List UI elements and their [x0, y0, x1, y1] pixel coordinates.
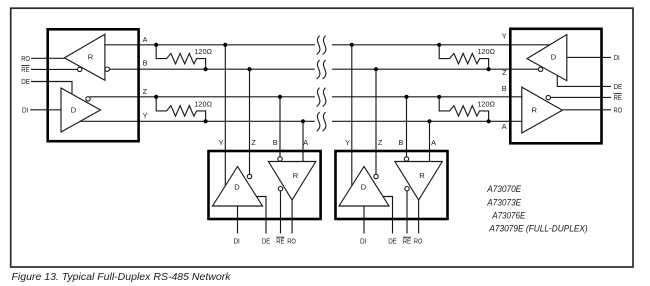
wire bus line A (left) / Y (right), left segment — [105, 44, 314, 46]
wire U1 DI — [30, 109, 61, 111]
svg-text:Z: Z — [378, 138, 383, 147]
transceiver U2 box (middle left) — [209, 151, 321, 219]
svg-text:B: B — [502, 84, 507, 93]
inversion bubble on U3 receiver enable RE — [405, 187, 409, 191]
wire U2 DE — [257, 197, 267, 234]
svg-text:D: D — [71, 106, 77, 115]
wire U1 RE — [31, 68, 77, 70]
receiver triangle R of U1 — [64, 34, 105, 80]
svg-text:R: R — [532, 106, 538, 115]
inversion bubble on U4 driver output Z — [538, 67, 542, 71]
wire drop from line B to U2 pin Z — [249, 69, 251, 174]
svg-text:DI: DI — [360, 237, 366, 246]
junction node dots on line B — [204, 67, 491, 71]
svg-text:RE: RE — [276, 237, 284, 246]
driver triangle D of U1 — [61, 88, 101, 132]
svg-text:RO: RO — [614, 106, 623, 115]
inversion bubble on U2 receiver enable RE — [278, 187, 282, 191]
transceiver U4 box (right) — [510, 29, 601, 144]
svg-text:D: D — [551, 53, 557, 62]
wire U1 RO — [31, 57, 64, 59]
svg-text:DE: DE — [262, 237, 271, 246]
driver triangle D of U3 — [339, 167, 389, 207]
wire U2 RO — [291, 200, 293, 234]
inversion bubble on U3 receiver input B — [404, 157, 408, 161]
inversion bubble on U2 driver output Z — [247, 174, 251, 178]
wire drop from line Z to U3 pin B — [406, 97, 408, 157]
wire U4 RE — [551, 96, 612, 98]
wire U2 RE — [280, 191, 282, 234]
svg-text:RE: RE — [403, 237, 411, 246]
svg-text:Y: Y — [143, 111, 148, 120]
wire bus line A/Y right segment — [333, 44, 550, 46]
wire U3 DI — [363, 206, 365, 234]
svg-text:DE: DE — [388, 237, 397, 246]
wire U3 RO — [418, 200, 420, 234]
receiver triangle R of U3 — [395, 162, 442, 201]
cable break marks on line Y/A — [317, 112, 326, 131]
svg-text:Y: Y — [502, 32, 507, 41]
svg-text:RO: RO — [414, 237, 423, 246]
wire bus line B/Z right segment — [333, 68, 539, 70]
svg-text:A: A — [502, 122, 507, 131]
svg-text:DE: DE — [614, 82, 623, 91]
svg-text:D: D — [361, 182, 367, 191]
svg-text:Z: Z — [502, 68, 507, 77]
svg-text:A73076E: A73076E — [491, 211, 526, 222]
junction node dots on line Z — [154, 95, 441, 99]
svg-text:120Ω: 120Ω — [477, 99, 495, 108]
svg-text:A: A — [431, 138, 436, 147]
junction node dots on line Y — [204, 119, 491, 123]
wire drop from line Y to U2 pin A — [302, 121, 304, 161]
wire U4 DE — [557, 75, 611, 86]
resistor R1 120 ohm termination between A and B — [156, 45, 205, 69]
wire U2 DI — [237, 206, 239, 234]
svg-text:A: A — [303, 138, 308, 147]
svg-text:Y: Y — [219, 138, 224, 147]
cable break marks on line B/Z — [317, 60, 326, 79]
inversion bubble on U1 receiver input B — [105, 67, 109, 71]
resistor R4 120 ohm termination between B and A (right) — [439, 97, 488, 122]
wire bus line Y (left) / A (right), left segment — [80, 120, 314, 122]
inversion bubble on U3 driver output Z — [374, 174, 378, 178]
svg-text:R: R — [88, 53, 94, 62]
svg-text:RE: RE — [21, 65, 29, 74]
wire drop from line Z to U2 pin B — [279, 97, 281, 157]
wire drop from line A to U3 pin Y — [351, 45, 353, 186]
transceiver U3 box (middle right) — [336, 151, 448, 219]
receiver triangle R of U4 — [522, 87, 563, 133]
wire drop from line A to U2 pin Y — [224, 45, 226, 186]
svg-text:Y: Y — [345, 138, 350, 147]
wire bus line Z (left) / B (right), left segment — [90, 96, 314, 98]
receiver triangle R of U2 — [268, 162, 315, 201]
cable break marks on line A/Y — [317, 36, 326, 55]
svg-text:A73079E (FULL-DUPLEX): A73079E (FULL-DUPLEX) — [489, 224, 588, 235]
svg-text:120Ω: 120Ω — [194, 99, 212, 108]
wire U3 RE — [406, 191, 408, 234]
svg-text:120Ω: 120Ω — [477, 47, 495, 56]
svg-text:Z: Z — [251, 138, 256, 147]
wire U4 DI — [567, 56, 611, 58]
svg-text:120Ω: 120Ω — [194, 47, 212, 56]
inversion bubble on U2 receiver input B — [278, 157, 282, 161]
svg-text:DI: DI — [234, 237, 240, 246]
svg-text:D: D — [234, 182, 240, 191]
svg-text:R: R — [419, 171, 425, 180]
wire drop from line Y to U3 pin A — [429, 121, 431, 161]
svg-text:DE: DE — [21, 77, 30, 86]
svg-text:A73073E: A73073E — [486, 197, 521, 208]
cable break marks on line Z/B — [317, 88, 326, 107]
svg-text:B: B — [398, 138, 403, 147]
svg-text:R: R — [293, 171, 299, 180]
resistor R3 120 ohm termination between Y and Z (right) — [439, 45, 488, 69]
svg-text:Figure 13. Typical Full-Duplex: Figure 13. Typical Full-Duplex RS-485 Ne… — [12, 272, 232, 283]
wire bus line Z/B right segment — [333, 96, 522, 98]
resistor R2 120 ohm termination between Z and Y — [156, 97, 205, 122]
inversion bubble on U1 driver output Z — [86, 97, 90, 101]
svg-text:A73070E: A73070E — [486, 184, 521, 195]
transceiver U1 box (left) — [48, 29, 139, 141]
inversion bubble on U4 receiver enable RE — [546, 95, 550, 99]
wire drop from line B to U3 pin Z — [375, 69, 377, 174]
svg-text:RO: RO — [287, 237, 296, 246]
svg-text:B: B — [273, 138, 278, 147]
svg-text:DI: DI — [22, 106, 28, 115]
svg-text:B: B — [143, 59, 148, 68]
wire bus line Y/A right segment — [333, 120, 522, 122]
driver triangle D of U4 — [527, 35, 567, 81]
svg-text:RE: RE — [614, 93, 622, 102]
wire bus line B (left) / Z (right), left segment — [109, 68, 314, 70]
wire U3 DE — [383, 197, 393, 234]
driver triangle D of U2 — [213, 167, 263, 207]
wire U1 DE — [31, 82, 72, 95]
svg-text:A: A — [143, 35, 148, 44]
svg-text:Z: Z — [143, 87, 148, 96]
junction node dots on line A — [154, 43, 441, 47]
inversion bubble on U1 receiver enable RE — [78, 67, 82, 71]
wire U4 RO — [562, 109, 611, 111]
svg-text:DI: DI — [614, 53, 620, 62]
svg-text:RO: RO — [21, 54, 30, 63]
